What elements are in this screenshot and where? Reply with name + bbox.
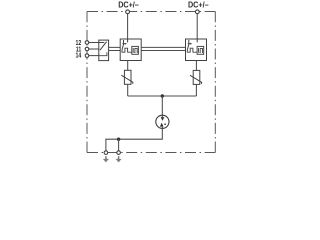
wire spark gap to earth run [106,128,162,151]
U1 disconnector arrow tick [122,43,125,45]
wire junction to earth terminal 2 [118,139,120,151]
U1 top lead stub [127,39,129,42]
wire U1 bottom to varistor R1 [127,61,129,71]
earth terminal circle 1 [104,151,108,155]
common rail wire [128,95,197,97]
U2 indicator pulse box [197,46,204,54]
earth arrow 1 [103,156,109,162]
contact blade from terminal 11 [100,42,107,51]
svg-text:DC+/–: DC+/– [118,0,139,10]
terminal circle 12 [85,41,89,45]
changeover contact box (remote signalling contact) [99,40,109,61]
mechanical linkage double line contact box to U1 [109,47,121,50]
wire from DC node left down to monitor box U1 [127,13,129,39]
U2 disconnector arrow tick [188,43,191,45]
wire varistor R2 to common rail [195,84,197,96]
svg-text:DC+/–: DC+/– [188,0,209,10]
wire terminal 12 to contact box [89,42,99,44]
node DC+/- right terminal circle [195,10,199,14]
wire U2 bottom to varistor R2 [195,61,197,71]
enclosure border top (dash-dot) [87,11,215,13]
U1 signal square wave [122,48,132,52]
U1 indicator pulse box [132,46,139,54]
varistor R2 [190,70,202,84]
junction earth branch [117,138,120,141]
contact fixed contact 14 (hook) [99,52,107,55]
mechanical linkage double line U1 to U2 [141,47,185,50]
wire junction down to spark gap F1 [161,96,163,115]
monitor box U2 (disconnector with status indication) [186,39,207,61]
spark gap F1 [156,115,169,128]
terminal circle 14 [85,54,89,58]
wire varistor R1 to common rail [127,84,129,96]
enclosure border bottom (dash-dot) [87,152,215,154]
U2 top lead stub [196,39,198,42]
terminal circle 11 [85,47,89,51]
U2 signal square wave [187,48,197,52]
U1 disconnector [122,40,124,50]
varistor R1 [121,70,133,84]
wire terminal 11 to contact box [89,48,99,50]
contact stub 12 [99,42,105,44]
wire from DC node right down to monitor box U2 [196,13,198,39]
node DC+/- left terminal circle [126,10,130,14]
enclosure border left (dash-dot) [86,12,88,153]
monitor box U1 (disconnector with status indication) [120,39,141,61]
enclosure border right (dash-dot) [214,12,216,153]
wire terminal 14 to contact box [89,55,99,57]
svg-text:14: 14 [75,52,81,60]
earth arrow 2 [116,156,122,162]
junction common rail [161,94,164,97]
U2 disconnector [187,40,189,50]
earth terminal circle 2 [117,151,121,155]
